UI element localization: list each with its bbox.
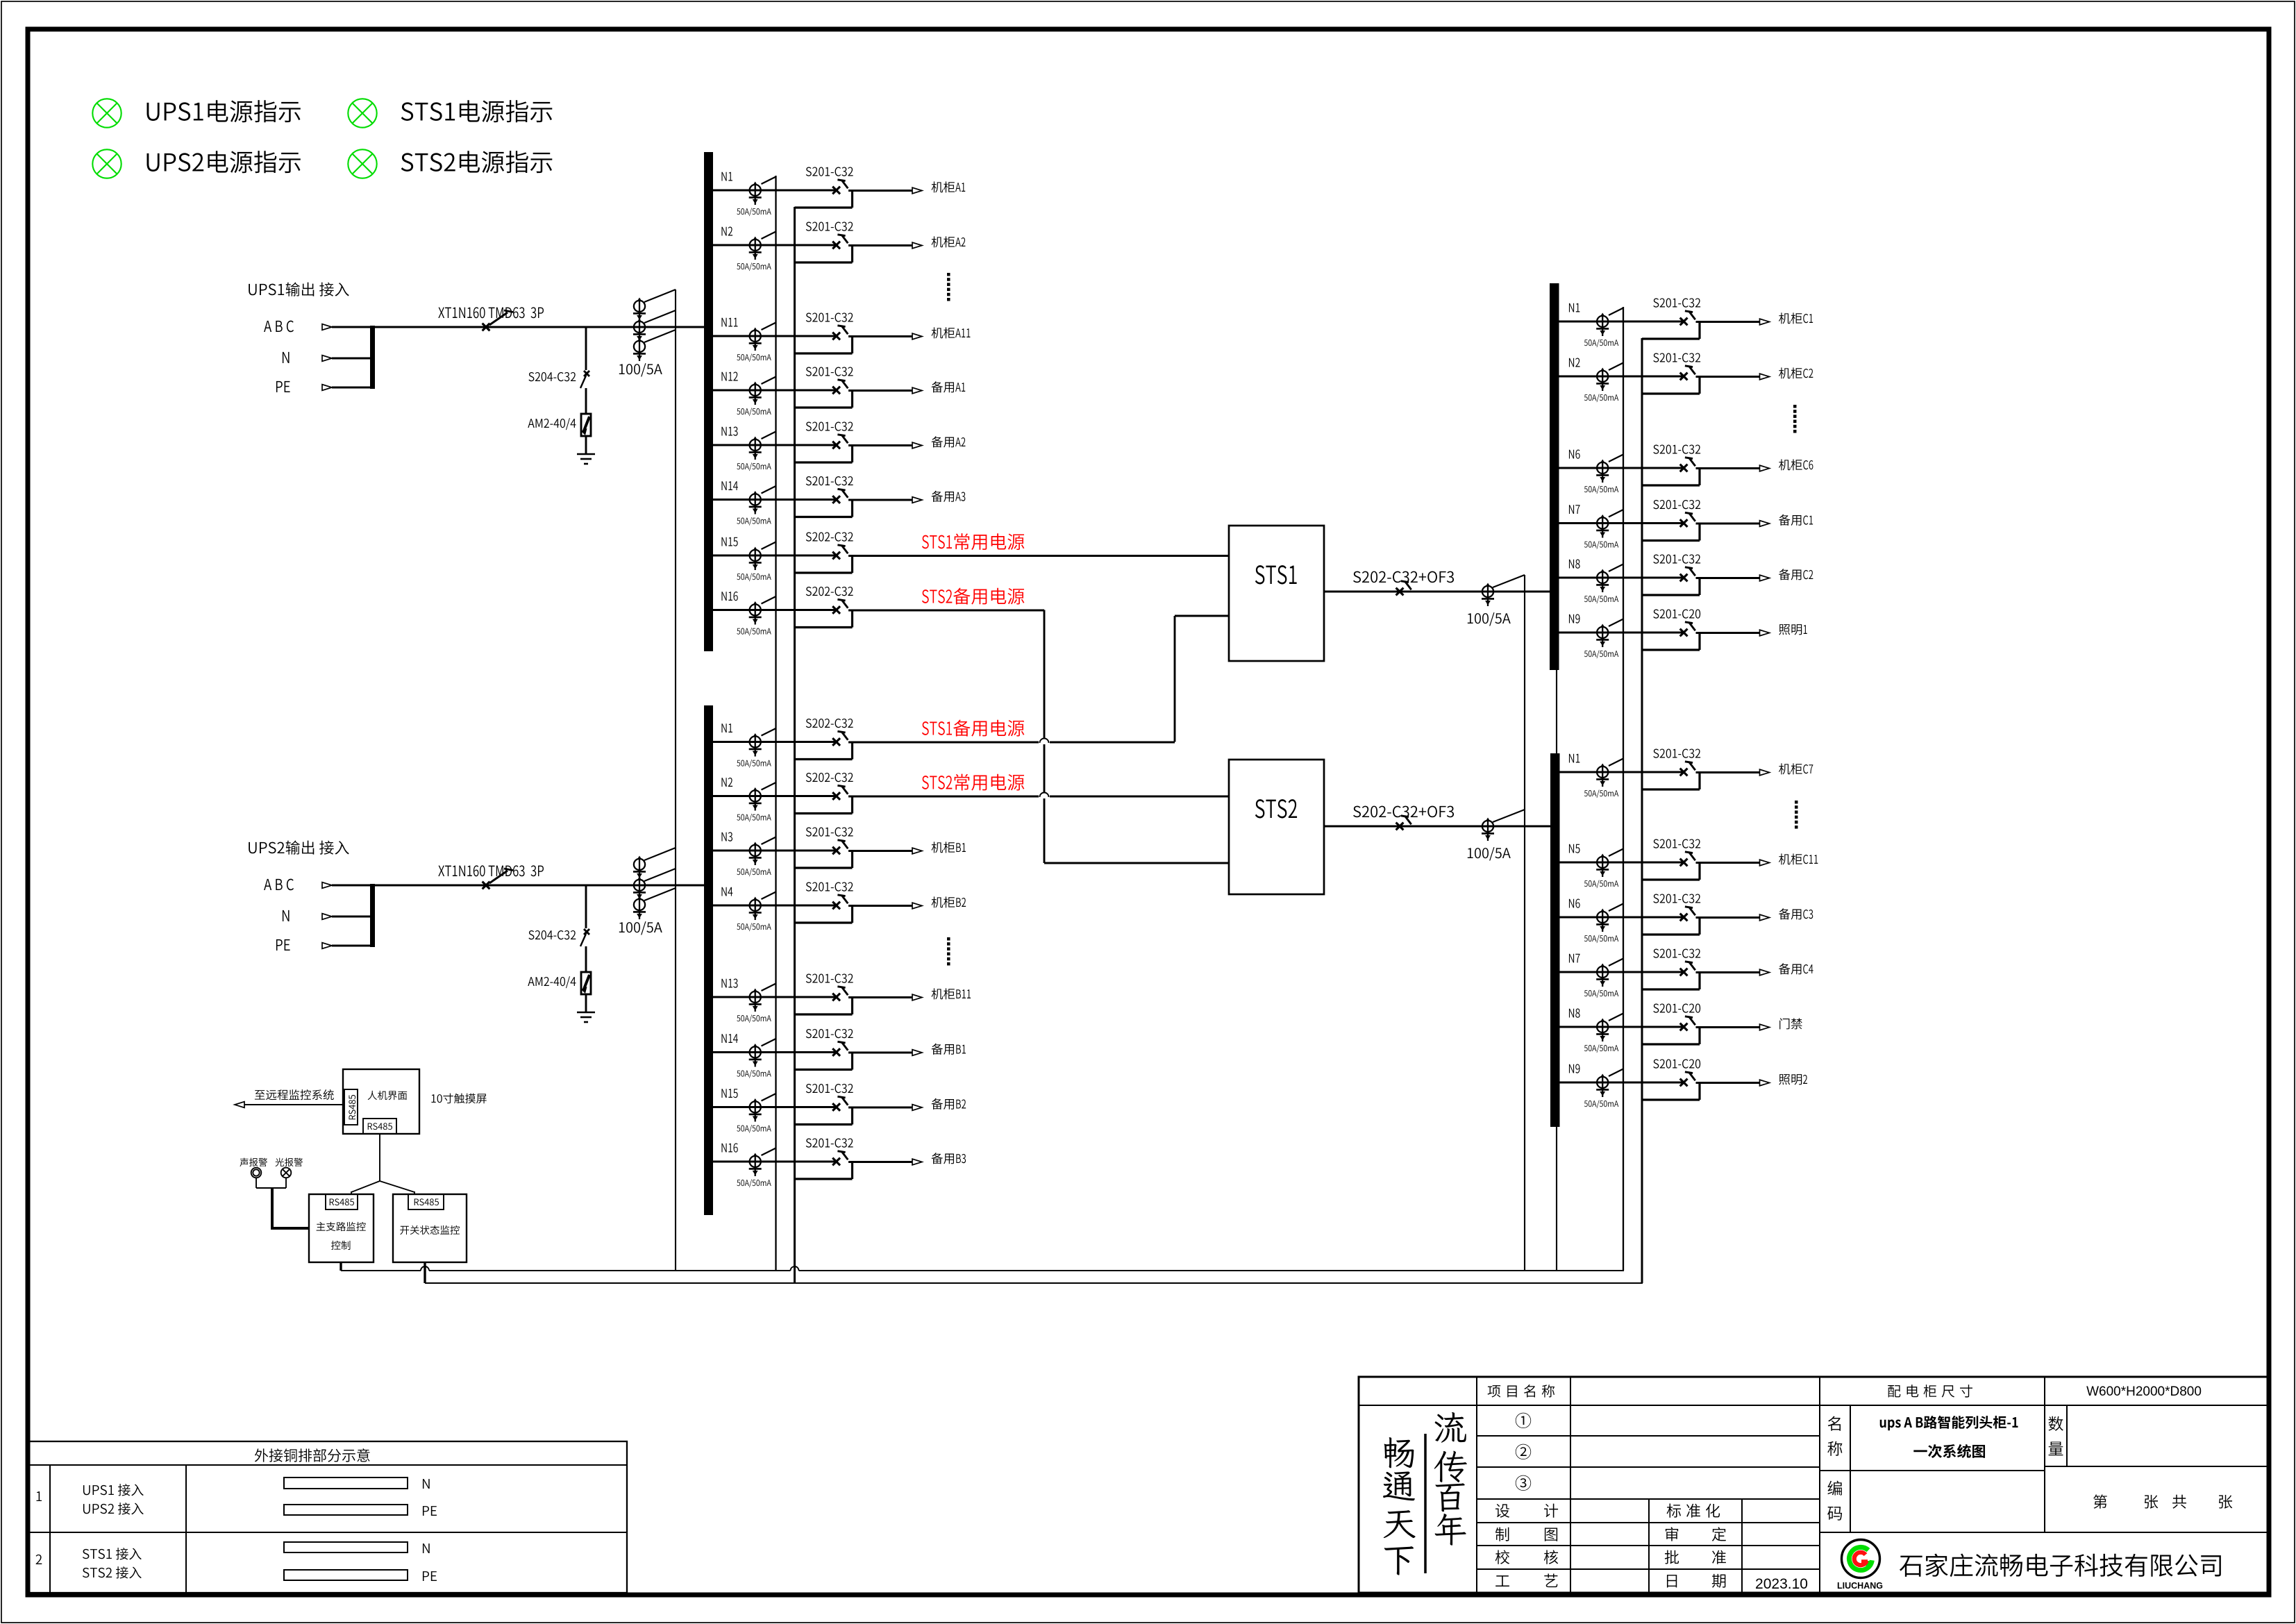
out arrow (A-N11) [912, 333, 922, 340]
input arrow N [322, 914, 332, 920]
label ① [1516, 1413, 1531, 1428]
branch C-N9 wire from busbar [1555, 632, 1684, 634]
label S202-C32 [806, 532, 853, 541]
red label STS2常用电源 [922, 774, 1024, 791]
switch status drop (C2-N8) [1698, 1028, 1700, 1044]
switch status monitor box 开关状态监控 [393, 1194, 467, 1262]
RCD 50A/50mA (A-N2) [755, 237, 756, 255]
drop from 开关状态 box [424, 1262, 426, 1283]
CT 100/5A on STS output [1487, 584, 1489, 601]
label N16 [721, 592, 737, 601]
wire N to tie bar [332, 358, 370, 360]
CT UPS2 phase 1 [639, 857, 640, 874]
destination label 备用C4 [1779, 963, 1813, 974]
label N3 [721, 832, 732, 841]
destination label 机柜C1 [1779, 312, 1813, 324]
label 设 计 [1495, 1504, 1509, 1518]
calligraphy 下 [1384, 1546, 1414, 1575]
calligraphy 流 [1435, 1412, 1466, 1443]
out arrow (C-N8) [1760, 575, 1770, 581]
label N14 [721, 1034, 738, 1043]
wire STS2 standby feed (A-N16 -> STS2) [1044, 610, 1046, 864]
main wire UPS1 to busbar [332, 326, 704, 328]
title block frame [1359, 1377, 2269, 1593]
title block hline (数量 bottom) [2045, 1466, 2269, 1467]
RCD 50A/50mA (C2-N5) [1602, 855, 1603, 872]
table col divider 1 [49, 1465, 51, 1593]
label 50A/50mA (A-N11) [737, 353, 771, 362]
breaker S201-C32 (C-N7) [1680, 519, 1688, 527]
branch C2-N1 wire from busbar [1555, 771, 1684, 773]
branch out wire (A-N11) [848, 335, 912, 337]
breaker S202-C32 (A-N16) [832, 606, 840, 614]
copper bar N (row2) [284, 1542, 408, 1552]
breaker S201-C32 (A-N11) [832, 333, 840, 340]
surge arrester AM2-40/4 (UPS2) [581, 972, 591, 994]
RCD monitor diagonal (A-N1) [762, 177, 776, 185]
label S201-C32 [1653, 500, 1700, 509]
RCD 50A/50mA (A-N16) [755, 603, 756, 620]
label 100/5A (UPS2) [619, 921, 662, 935]
branch C2-N8 wire from busbar [1555, 1026, 1684, 1028]
breaker S201-C32 (A-N1) [832, 187, 840, 194]
busbar B [704, 705, 713, 1215]
destination label 备用C2 [1779, 569, 1813, 580]
surge arrester AM2-40/4 (UPS1) [581, 414, 591, 436]
label S201-C32 [806, 1138, 853, 1147]
switch status drop (C-N6) [1698, 469, 1700, 485]
wire PE to tie bar [332, 945, 370, 947]
hop B-N2 wire over vertical [1039, 793, 1050, 798]
RCD monitor diagonal (A-N2) [762, 232, 776, 240]
branch out wire (B-N15) [848, 1107, 912, 1109]
switch status drop (C-N7) [1698, 524, 1700, 541]
destination label 机柜A2 [932, 236, 966, 247]
input arrow PE [322, 943, 332, 949]
title block hline (编码 bottom) [1820, 1532, 2269, 1533]
label RS485 rotated [349, 1095, 355, 1119]
breaker S201-C32 (C2-N1) [1680, 769, 1688, 776]
label 50A/50mA (C-N8) [1584, 595, 1618, 603]
label 50A/50mA (A-N16) [737, 628, 771, 636]
RCD 50A/50mA (C2-N9) [1602, 1075, 1603, 1092]
label N6 [1569, 898, 1580, 907]
branch C2-N9 wire from busbar [1555, 1082, 1684, 1084]
svg-text:LIUCHANG: LIUCHANG [1837, 1581, 1883, 1591]
label 标准化 [1667, 1504, 1720, 1518]
label S204-C32 [528, 372, 576, 381]
label S202-C32+OF3 [1353, 571, 1454, 583]
main branch monitor box 主支路监控控制 [309, 1194, 374, 1262]
out arrow (A-N2) [912, 242, 922, 249]
out arrow (C-N1) [1760, 319, 1770, 325]
legend label STS1电源指示 [401, 100, 553, 122]
RCD monitor diagonal (C2-N9) [1609, 1069, 1623, 1077]
breaker S201-C32 (B-N3) [832, 847, 840, 855]
breaker S201-C32 (C2-N6) [1680, 914, 1688, 921]
out arrow (C-N9) [1760, 630, 1770, 636]
red branch out wire (A-N15) [848, 555, 1229, 557]
RCD 50A/50mA (B-N13) [755, 989, 756, 1007]
label 工 艺 [1495, 1575, 1509, 1587]
branch C-N2 wire from busbar [1555, 376, 1684, 378]
title block hline y=2260 [1477, 1568, 1820, 1570]
label PE [276, 381, 290, 392]
label S201-C32 [1653, 444, 1700, 453]
label 50A/50mA (B-N3) [737, 868, 771, 876]
branch B-N4 wire from busbar [707, 905, 837, 907]
switch status drop (C-N2) [1698, 377, 1700, 394]
label S201-C32 [806, 221, 853, 231]
branch B-N3 wire from busbar [707, 850, 837, 852]
input arrow PE [322, 385, 332, 391]
RCD 50A/50mA (A-N15) [755, 548, 756, 565]
breaker S201-C32 (A-N2) [832, 242, 840, 249]
switch status drop (B-N13) [851, 998, 853, 1014]
label N12 [721, 371, 737, 380]
branch out wire (A-N2) [848, 244, 912, 246]
RCD 50A/50mA (B-N3) [755, 843, 756, 860]
CT diagonal to collector [644, 310, 676, 323]
RCD monitor diagonal (C2-N1) [1609, 759, 1623, 767]
label 50A/50mA (C-N2) [1584, 394, 1618, 402]
breaker S201-C20 (C-N9) [1680, 629, 1688, 637]
label N6 [1569, 449, 1580, 458]
branch out wire (C2-N1) [1696, 771, 1760, 773]
HMI box 人机界面 [343, 1069, 419, 1134]
CT diagonal to collector [644, 848, 676, 860]
destination label 门禁 [1779, 1018, 1802, 1029]
label N7 [1569, 954, 1580, 963]
label STS1 [1255, 565, 1297, 584]
table row divider [29, 1532, 627, 1533]
STS output wire [1324, 826, 1550, 828]
RCD monitor diagonal (C-N6) [1609, 455, 1623, 462]
branch B-N15 wire from busbar [707, 1106, 837, 1108]
destination label 机柜A1 [932, 181, 966, 192]
label 一次系统图 [1913, 1444, 1985, 1458]
label N [423, 1479, 430, 1489]
RCD 50A/50mA (B-N1) [755, 735, 756, 752]
indicator lamp symbol UPS1电源指示 [92, 99, 121, 127]
sound alarm symbol [251, 1168, 262, 1178]
title block vline x=2977 [2066, 1405, 2068, 1466]
dots busbar B [947, 937, 950, 941]
branch C-N1 wire from busbar [1555, 321, 1684, 323]
branch B-N13 wire from busbar [707, 996, 837, 998]
red label STS1备用电源 [922, 720, 1024, 737]
CT diagonal to collector [644, 888, 676, 901]
label N1 [1569, 754, 1579, 763]
destination label 机柜A11 [932, 327, 971, 338]
title block hline (名称 bottom left) [1820, 1470, 2045, 1471]
label 50A/50mA (B-N2) [737, 814, 771, 822]
label PE [423, 1506, 437, 1516]
calligraphy 天 [1384, 1510, 1416, 1538]
label UPS1 接入 [83, 1484, 144, 1496]
label S201-C32 [806, 1029, 853, 1038]
title block vline x=2375 [1648, 1499, 1650, 1593]
CT diagonal to collector [644, 869, 676, 881]
company logo [1842, 1540, 1880, 1578]
label STS1 接入 [83, 1548, 142, 1559]
branch A-N16 wire from busbar [707, 609, 837, 611]
label S201-C20 [1653, 1003, 1700, 1012]
switch status drop (B-N3) [851, 851, 853, 868]
label 50A/50mA (A-N12) [737, 408, 771, 416]
destination label 备用C3 [1779, 908, 1813, 919]
title block hline y=2159 [1477, 1498, 1820, 1500]
switch status drop (A-N1) [851, 191, 853, 208]
switch status drop (C2-N9) [1698, 1083, 1700, 1100]
breaker S204-C32 (UPS2) [584, 929, 589, 935]
RCD 50A/50mA (C-N1) [1602, 314, 1603, 331]
out arrow (C-N6) [1760, 465, 1770, 471]
label 50A/50mA (A-N2) [737, 262, 771, 271]
out arrow (C-N2) [1760, 374, 1770, 380]
RCD monitor diagonal (B-N1) [762, 728, 776, 736]
RCD 50A/50mA (C2-N7) [1602, 964, 1603, 982]
label S202-C32 [806, 719, 853, 728]
label 审 定 [1666, 1527, 1678, 1541]
CT diagonal to collector [644, 330, 676, 342]
RCD monitor diagonal (C2-N8) [1609, 1014, 1623, 1021]
label 50A/50mA (B-N13) [737, 1014, 771, 1023]
feeder tie bar [370, 326, 375, 389]
label 50A/50mA (C-N9) [1584, 650, 1618, 658]
title block vline x=2665 [1850, 1405, 1851, 1532]
copper bar N (row1) [284, 1477, 408, 1489]
table col divider 2 [185, 1465, 187, 1593]
breaker S202-C32 (B-N1) [832, 738, 840, 746]
wire split right [380, 1181, 414, 1192]
switch status drop (C2-N6) [1698, 918, 1700, 935]
label N [283, 352, 290, 363]
RCD monitor diagonal (C-N2) [1609, 363, 1623, 371]
label S201-C32 [806, 312, 853, 321]
remote monitoring arrow [235, 1102, 244, 1108]
label 制 图 [1495, 1527, 1509, 1541]
drop from 主支路 box [340, 1262, 342, 1271]
label S201-C32 [1653, 298, 1700, 307]
label STS2 [1255, 799, 1297, 818]
label S204-C32 [528, 930, 576, 939]
out arrow (B-N4) [912, 903, 922, 909]
label 第 张 共 张 [2093, 1494, 2107, 1508]
label 声报警 [240, 1158, 267, 1166]
label 50A/50mA (A-N15) [737, 573, 771, 581]
CT UPS2 phase 3 [639, 897, 640, 914]
RCD monitor diagonal (C2-N6) [1609, 904, 1623, 912]
wire SPD branch (UPS2) [585, 885, 587, 928]
label 100/5A [1468, 612, 1511, 626]
switch-status collector trunk (A/B) [794, 207, 796, 1283]
label UPS1输出 接入 [249, 282, 349, 296]
label A B C [264, 879, 294, 891]
branch A-N13 wire from busbar [707, 444, 837, 446]
RS485 port box [408, 1194, 444, 1209]
title block hline y=2113 [1477, 1466, 1820, 1468]
breaker S201-C32 (C2-N7) [1680, 969, 1688, 976]
breaker XT1N160 TMD63 3P (UPS1) [483, 324, 490, 331]
copper bar PE (row1) [284, 1505, 408, 1515]
red label STS1常用电源 [922, 533, 1024, 550]
out arrow (C2-N8) [1760, 1024, 1770, 1030]
RCD monitor diagonal (B-N4) [762, 892, 776, 900]
branch B-N2 wire from busbar [707, 795, 837, 797]
calligraphy 百 [1436, 1483, 1465, 1512]
label S201-C32 [1653, 894, 1700, 903]
out arrow (C2-N1) [1760, 769, 1770, 776]
label 100/5A (UPS1) [619, 363, 662, 376]
switch status drop (C-N9) [1698, 633, 1700, 650]
title block vline x=2127 [1476, 1377, 1477, 1593]
copper bar table frame [29, 1441, 627, 1593]
wire SPD branch (UPS1) [585, 327, 587, 370]
destination label 备用A3 [932, 491, 966, 502]
out arrow (A-N13) [912, 442, 922, 449]
wire split left [351, 1181, 380, 1192]
label N15 [721, 1089, 737, 1098]
RCD 50A/50mA (A-N13) [755, 437, 756, 455]
RCD monitor diagonal (C-N8) [1609, 564, 1623, 572]
label N9 [1569, 1064, 1580, 1073]
label AM2-40/4 [528, 976, 576, 988]
RCD 50A/50mA (C-N2) [1602, 369, 1603, 386]
ground symbol (UPS2) [577, 1012, 595, 1014]
label S201-C20 [1653, 1059, 1700, 1068]
breaker S201-C32 (C-N8) [1680, 574, 1688, 582]
dots busbar C-top [1793, 405, 1797, 408]
label XT1N160 TMD63 3P [438, 865, 544, 876]
UPS CT collector trunk [675, 290, 676, 1271]
indicator lamp symbol UPS2电源指示 [92, 149, 121, 178]
breaker S202-C32 (A-N15) [832, 552, 840, 560]
label N1 [721, 172, 732, 181]
breaker S202-C32+OF3 [1396, 588, 1404, 596]
label 控制 [331, 1241, 350, 1250]
destination label 照明1 [1779, 624, 1807, 635]
branch out wire (C2-N8) [1696, 1026, 1760, 1028]
STS output wire [1324, 591, 1550, 593]
branch A-N11 wire from busbar [707, 335, 837, 337]
label N1 [1569, 303, 1579, 312]
branch out wire (B-N16) [848, 1161, 912, 1163]
switch status drop (B-N14) [851, 1053, 853, 1070]
branch out wire (B-N13) [848, 996, 912, 998]
RCD monitor diagonal (A-N13) [762, 432, 776, 440]
label PE [276, 939, 290, 951]
label 项目名称 [1488, 1384, 1555, 1397]
label AM2-40/4 [528, 418, 576, 430]
destination label 备用B3 [932, 1153, 966, 1164]
label 50A/50mA (B-N15) [737, 1125, 771, 1133]
light alarm symbol [281, 1168, 292, 1178]
RCD 50A/50mA (B-N14) [755, 1045, 756, 1062]
branch B-N14 wire from busbar [707, 1051, 837, 1053]
label N9 [1569, 614, 1580, 623]
feeder tie bar [370, 884, 375, 947]
alarm wire thick [271, 1188, 274, 1227]
indicator lamp symbol STS2电源指示 [348, 149, 376, 178]
calligraphy 传 [1434, 1451, 1467, 1482]
label 批 准 [1665, 1550, 1679, 1564]
label 50A/50mA (A-N13) [737, 462, 771, 471]
switch status drop (B-N4) [851, 906, 853, 923]
thin line below busbar C [1556, 670, 1557, 1271]
label STS2 接入 [83, 1566, 142, 1578]
switch status drop (A-N12) [851, 391, 853, 408]
label N15 [721, 537, 737, 546]
label 配电柜尺寸 [1888, 1384, 1972, 1397]
title block hline y=2024 [1359, 1405, 2269, 1406]
label N13 [721, 978, 737, 987]
label S201-C32 [806, 827, 853, 836]
label 50A/50mA (C2-N7) [1584, 989, 1618, 998]
label N7 [1569, 505, 1580, 514]
input arrow A B C [322, 324, 332, 330]
RCD monitor diagonal (B-N3) [762, 837, 776, 845]
label N16 [721, 1143, 737, 1152]
switch status drop (C-N8) [1698, 578, 1700, 595]
switch status drop (C-N1) [1698, 322, 1700, 339]
label 50A/50mA (B-N16) [737, 1179, 771, 1187]
branch out wire (C-N6) [1696, 467, 1760, 469]
CT UPS1 phase 3 [639, 339, 640, 356]
label A B C [264, 321, 294, 333]
branch out wire (C-N7) [1696, 523, 1760, 525]
wire PE to tie bar [332, 387, 370, 389]
label S201-C32 [806, 421, 853, 430]
label N11 [721, 318, 737, 327]
main wire UPS2 to busbar [332, 885, 704, 887]
branch C-N8 wire from busbar [1555, 577, 1684, 579]
label N5 [1569, 844, 1580, 853]
branch out wire (A-N12) [848, 390, 912, 392]
label S201-C32 [1653, 554, 1700, 563]
label 50A/50mA (C-N1) [1584, 339, 1618, 347]
label 1 [37, 1491, 42, 1501]
breaker S201-C32 (C-N2) [1680, 373, 1688, 380]
wire STS1 standby feed (B-N1 -> STS1) [1174, 616, 1176, 742]
CT diagonal to collector [644, 290, 676, 302]
input arrow A B C [322, 882, 332, 889]
label ups A B路智能列头柜-1 [1880, 1416, 2018, 1430]
RCD monitor diagonal (B-N13) [762, 984, 776, 991]
ground symbol (UPS1) [577, 453, 595, 455]
RCD 50A/50mA (B-N15) [755, 1100, 756, 1117]
monitor rail 1 [341, 1270, 421, 1271]
branch out wire (B-N14) [848, 1052, 912, 1054]
breaker S204-C32 (UPS1) [584, 371, 589, 376]
wire light alarm down [285, 1178, 287, 1188]
svg-text:2023.10: 2023.10 [1755, 1576, 1808, 1592]
label RS485 [368, 1123, 392, 1130]
breaker S201-C32 (C-N6) [1680, 464, 1688, 472]
breaker S201-C32 (B-N13) [832, 994, 840, 1001]
RCD 50A/50mA (B-N4) [755, 898, 756, 915]
label S201-C32 [806, 1084, 853, 1093]
label 50A/50mA (B-N1) [737, 760, 771, 768]
label 名称 [1828, 1416, 1841, 1431]
destination label 机柜B1 [932, 842, 966, 853]
label 100/5A [1468, 847, 1511, 860]
switch-status collector trunk (C) [1641, 338, 1643, 1283]
label 光报警 [275, 1158, 302, 1166]
label PE [423, 1571, 437, 1581]
label N2 [721, 226, 732, 235]
red branch out wire (A-N16) [848, 610, 1044, 612]
